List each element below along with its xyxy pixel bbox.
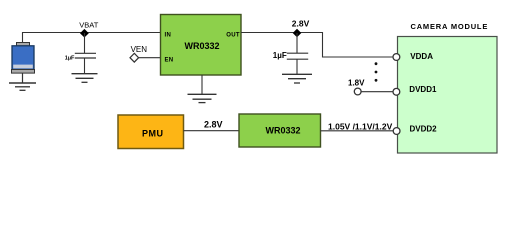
wire PMU to U2 <box>184 130 240 132</box>
node VEN <box>130 45 147 62</box>
regulator U1 WR0332 <box>161 15 242 76</box>
regulator U2 WR0332 <box>239 114 321 147</box>
svg-text:2.8V: 2.8V <box>204 120 223 130</box>
wire battery to ground <box>22 73 24 83</box>
wire U2 to DVDD2 <box>321 130 394 132</box>
svg-text:1.05V /1.1V/1.2V: 1.05V /1.1V/1.2V <box>328 121 393 131</box>
pin DVDD2 <box>393 128 400 135</box>
ground C2 <box>282 74 312 83</box>
svg-text:1.8V: 1.8V <box>348 79 365 88</box>
pin VDDA <box>393 54 400 61</box>
wire 2.8V node to capacitor C2 <box>296 33 298 53</box>
node 2.8V <box>292 18 310 37</box>
svg-text:PMU: PMU <box>142 128 164 138</box>
node 1.8V terminal <box>348 79 365 95</box>
dots more pins <box>375 62 378 81</box>
capacitor C1 1uF <box>65 53 96 73</box>
wire VBAT: battery to IN of U1 <box>23 33 161 43</box>
svg-text:VBAT: VBAT <box>79 20 98 29</box>
wire VEN to EN of U1 <box>139 57 161 59</box>
PMU block <box>118 115 184 149</box>
wire U1 ground <box>201 75 203 94</box>
ground battery <box>9 83 36 90</box>
svg-text:1µF: 1µF <box>273 51 287 60</box>
svg-text:OUT: OUT <box>226 32 240 38</box>
wire 1.8V to DVDD1 <box>361 91 393 93</box>
svg-text:EN: EN <box>165 57 174 63</box>
pin DVDD1 <box>393 88 400 95</box>
svg-text:VEN: VEN <box>131 45 148 54</box>
svg-text:DVDD1: DVDD1 <box>409 85 437 94</box>
camera module M1 <box>398 22 498 153</box>
capacitor C2 1uF <box>273 51 308 74</box>
svg-text:WR0332: WR0332 <box>184 41 219 51</box>
battery BT1 <box>12 43 35 74</box>
svg-text:1µF: 1µF <box>65 55 75 61</box>
wire VBAT node to capacitor C1 <box>84 33 86 54</box>
wire U1 OUT to VDDA <box>241 33 393 58</box>
svg-text:DVDD2: DVDD2 <box>410 124 438 133</box>
svg-text:VDDA: VDDA <box>410 52 433 61</box>
svg-text:2.8V: 2.8V <box>292 18 310 28</box>
svg-text:CAMERA MODULE: CAMERA MODULE <box>411 22 489 31</box>
ground U1 <box>188 94 217 102</box>
svg-text:IN: IN <box>165 32 172 38</box>
svg-text:WR0332: WR0332 <box>265 126 300 136</box>
ground C1 <box>72 74 98 83</box>
node VBAT <box>79 20 98 37</box>
